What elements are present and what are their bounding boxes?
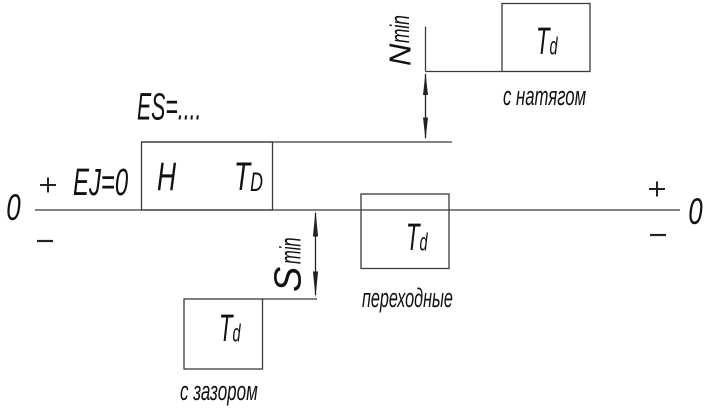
wire zero line 0-0 bbox=[35, 209, 680, 211]
svg-text:ES=....: ES=.... bbox=[137, 85, 201, 128]
dimension arrow Nmin bbox=[423, 72, 428, 140]
svg-text:S: S bbox=[268, 267, 310, 292]
svg-text:min: min bbox=[274, 237, 307, 264]
svg-text:с зазором: с зазором bbox=[180, 376, 258, 406]
svg-text:EJ=0: EJ=0 bbox=[73, 160, 128, 203]
svg-text:переходные: переходные bbox=[362, 283, 453, 313]
tolerance zone Td rectangle (clearance fit) bbox=[184, 299, 263, 369]
svg-text:Td: Td bbox=[406, 216, 428, 259]
svg-text:N: N bbox=[383, 43, 418, 66]
svg-text:H: H bbox=[157, 155, 176, 200]
tolerance zone Td rectangle (interference fit) bbox=[502, 4, 590, 72]
svg-text:0: 0 bbox=[688, 190, 703, 232]
minus sign left bbox=[37, 240, 53, 242]
dimension arrow Smin bbox=[313, 211, 318, 298]
svg-text:Td: Td bbox=[219, 307, 241, 350]
wire Nmin extension line bbox=[425, 27, 427, 72]
svg-text:0: 0 bbox=[6, 186, 21, 228]
svg-text:с натягом: с натягом bbox=[503, 81, 586, 111]
svg-text:TD: TD bbox=[234, 155, 263, 200]
minus sign right bbox=[650, 234, 666, 236]
svg-text:Td: Td bbox=[536, 20, 558, 63]
wire top line of hole zone extended bbox=[142, 141, 453, 143]
wire top line of clearance zone extended right bbox=[263, 298, 318, 300]
tolerance zone Td rectangle (transition fits) bbox=[361, 194, 449, 269]
tolerance zone H/TD rectangle bbox=[142, 142, 273, 210]
wire bottom line of interference zone extended left bbox=[426, 71, 503, 73]
plus sign left bbox=[40, 178, 56, 193]
plus sign right bbox=[649, 182, 665, 197]
svg-text:min: min bbox=[384, 15, 415, 43]
